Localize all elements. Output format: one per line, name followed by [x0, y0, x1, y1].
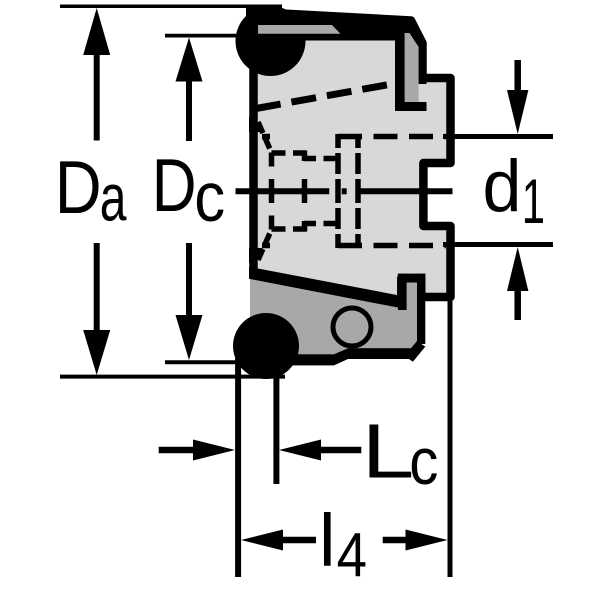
- svg-text:c: c: [194, 157, 225, 235]
- svg-text:D: D: [152, 144, 197, 228]
- svg-text:L: L: [362, 408, 415, 494]
- svg-text:D: D: [55, 146, 102, 229]
- svg-text:c: c: [409, 426, 438, 499]
- svg-text:1: 1: [522, 168, 545, 238]
- svg-text:4: 4: [337, 521, 367, 590]
- svg-text:l: l: [319, 499, 336, 582]
- svg-text:d: d: [483, 146, 522, 228]
- svg-text:a: a: [100, 161, 127, 236]
